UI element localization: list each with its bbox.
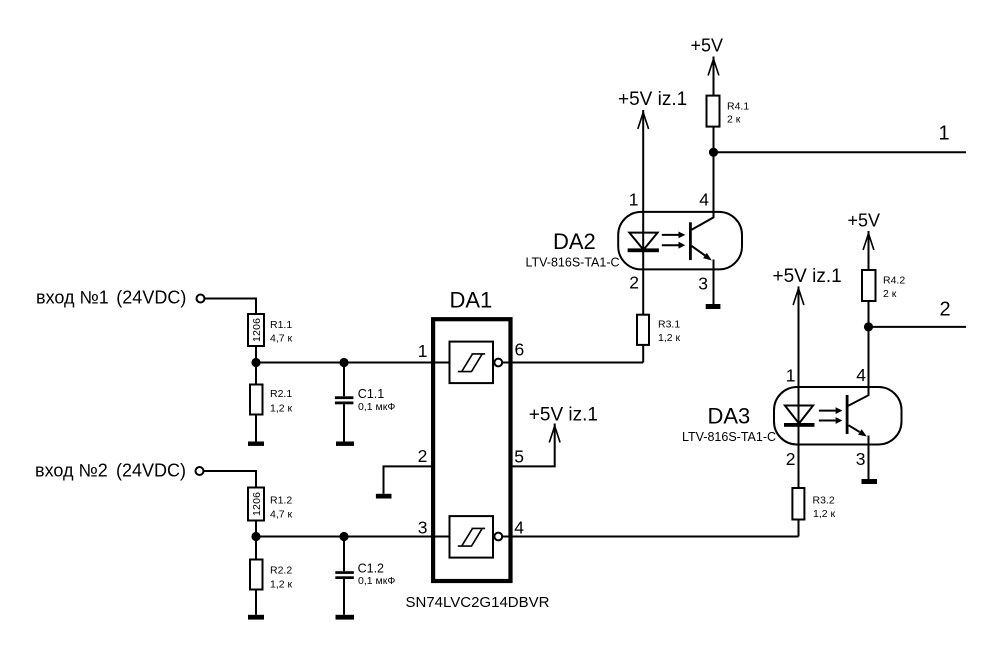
light arrow upper DA3 bbox=[819, 407, 843, 414]
svg-text:+5V iz.1: +5V iz.1 bbox=[618, 89, 687, 110]
ground pin2 DA1 bbox=[376, 494, 392, 499]
wire DA2 pin3 emitter to ground bbox=[713, 260, 715, 305]
svg-text:6: 6 bbox=[515, 340, 525, 360]
svg-text:R1.2: R1.2 bbox=[270, 495, 292, 507]
ground C1.2 bbox=[336, 615, 355, 620]
label R4.2 bbox=[883, 275, 905, 301]
wire +5V iz.1 to DA3 pin1 LED to R3.2 bbox=[798, 287, 800, 489]
svg-text:+5V iz.1: +5V iz.1 bbox=[773, 266, 842, 287]
ground DA3 pin3 bbox=[862, 479, 878, 484]
svg-text:2: 2 bbox=[786, 449, 796, 469]
schmitt trigger 2 hysteresis symbol bbox=[458, 528, 485, 546]
transistor base bar DA2 bbox=[689, 222, 692, 260]
label C1.2 bbox=[358, 561, 396, 587]
node junction C1.1 bbox=[339, 358, 348, 367]
svg-text:4,7 к: 4,7 к bbox=[270, 509, 293, 521]
resistor R2.2 bbox=[250, 560, 263, 590]
wire C1.1 bottom bbox=[343, 404, 345, 441]
label R4.1 bbox=[727, 101, 749, 126]
svg-text:+5V: +5V bbox=[691, 36, 724, 56]
svg-text:3: 3 bbox=[698, 274, 708, 294]
resistor R3.1 bbox=[637, 315, 649, 345]
label R1.2 bbox=[270, 495, 293, 521]
wire pin5 to +5V iz.1 bbox=[510, 424, 555, 467]
wire +5V to R4.1 bbox=[713, 57, 715, 96]
label input 1 bbox=[36, 288, 186, 308]
optocoupler DA3 body bbox=[774, 387, 902, 445]
IC DA1 body bbox=[433, 319, 510, 581]
svg-text:1: 1 bbox=[786, 366, 796, 386]
svg-text:DA1: DA1 bbox=[450, 288, 493, 313]
wire +5V to R4.2 bbox=[868, 231, 870, 270]
wire DA3 pin3 emitter to ground bbox=[868, 436, 870, 480]
svg-text:C1.2: C1.2 bbox=[358, 561, 384, 575]
light arrow lower DA2 bbox=[662, 242, 686, 249]
svg-text:0,1 мкФ: 0,1 мкФ bbox=[358, 575, 395, 587]
capacitor C1.2 bbox=[335, 571, 354, 579]
LED diode DA3 bbox=[785, 406, 813, 424]
schmitt trigger 1 box bbox=[450, 342, 494, 384]
ground R2.2 bbox=[248, 615, 264, 620]
svg-text:R2.2: R2.2 bbox=[270, 565, 292, 577]
resistor R1.2 bbox=[248, 488, 264, 521]
svg-text:вход №1: вход №1 bbox=[36, 288, 109, 308]
svg-text:1: 1 bbox=[939, 123, 950, 145]
node junction R1.2/R2.2 bbox=[251, 532, 260, 541]
svg-text:R3.1: R3.1 bbox=[658, 319, 680, 331]
power +5V iz.1 DA3 arrow bbox=[793, 289, 804, 306]
schmitt trigger 1 hysteresis symbol bbox=[458, 354, 485, 372]
svg-text:DA2: DA2 bbox=[553, 229, 596, 254]
ground C1.1 bbox=[336, 442, 354, 446]
wire output 2 bbox=[869, 326, 967, 328]
LED cathode bar DA3 bbox=[784, 423, 815, 427]
svg-text:2 к: 2 к bbox=[883, 288, 897, 300]
svg-text:1206: 1206 bbox=[251, 492, 263, 516]
wire node row1 left bbox=[256, 362, 449, 364]
svg-text:4: 4 bbox=[699, 190, 709, 210]
svg-text:R4.1: R4.1 bbox=[727, 101, 749, 113]
transistor base bar DA3 bbox=[846, 395, 849, 434]
transistor emitter DA3 bbox=[849, 425, 867, 436]
svg-text:R2.1: R2.1 bbox=[270, 388, 292, 400]
schmitt trigger 2 output bubble bbox=[494, 533, 502, 541]
terminal input 1 bbox=[197, 295, 205, 303]
svg-text:1: 1 bbox=[418, 341, 428, 361]
wire input1 to R1.1 bbox=[205, 299, 256, 315]
resistor R4.1 bbox=[707, 96, 720, 127]
label R3.2 bbox=[813, 495, 836, 521]
svg-text:1,2 к: 1,2 к bbox=[270, 403, 293, 415]
wire pin6 output row1 bbox=[502, 362, 643, 364]
node junction output1 bbox=[709, 148, 718, 157]
svg-text:+5V iz.1: +5V iz.1 bbox=[529, 405, 598, 426]
light arrow lower DA3 bbox=[819, 417, 843, 424]
node junction output2 bbox=[864, 322, 873, 331]
svg-text:C1.1: C1.1 bbox=[358, 387, 384, 401]
svg-text:DA3: DA3 bbox=[708, 404, 751, 429]
wire pin2 to ground bbox=[384, 466, 432, 493]
resistor R4.2 bbox=[862, 270, 876, 301]
label R2.2 bbox=[270, 565, 293, 591]
node junction R1.1/R2.1 bbox=[251, 358, 260, 367]
label R1.1 bbox=[270, 319, 293, 345]
svg-text:1,2 к: 1,2 к bbox=[270, 579, 293, 591]
resistor R1.1 bbox=[248, 314, 264, 346]
svg-text:2 к: 2 к bbox=[727, 114, 741, 126]
wire R3.1 to row1 bbox=[642, 345, 644, 363]
svg-text:LTV-816S-TA1-C: LTV-816S-TA1-C bbox=[526, 255, 620, 269]
transistor emitter DA2 bbox=[692, 246, 712, 261]
svg-text:2: 2 bbox=[940, 299, 951, 321]
wire +5V iz.1 to DA2 pin1 LED bbox=[642, 110, 644, 270]
svg-text:LTV-816S-TA1-C: LTV-816S-TA1-C bbox=[682, 430, 776, 444]
ground R2.1 bbox=[248, 442, 264, 446]
terminal input 2 bbox=[196, 467, 204, 475]
svg-text:4,7 к: 4,7 к bbox=[270, 333, 293, 345]
wire C1.2 bottom bbox=[343, 579, 345, 615]
svg-text:3: 3 bbox=[418, 518, 428, 538]
svg-text:(24VDC): (24VDC) bbox=[116, 461, 186, 481]
svg-text:1: 1 bbox=[629, 190, 639, 210]
LED diode DA2 bbox=[629, 233, 657, 250]
svg-text:R4.2: R4.2 bbox=[883, 275, 905, 287]
wire R3.2 to row3 bbox=[798, 520, 800, 537]
svg-text:R3.2: R3.2 bbox=[813, 495, 835, 507]
label C1.1 bbox=[358, 387, 396, 413]
optocoupler DA2 body bbox=[618, 212, 742, 270]
svg-text:SN74LVC2G14DBVR: SN74LVC2G14DBVR bbox=[406, 594, 550, 611]
label R3.1 bbox=[658, 319, 681, 345]
wire C1.2 top bbox=[343, 537, 345, 572]
svg-text:2: 2 bbox=[629, 273, 639, 293]
wire R4.2 to DA3 pin4 collector bbox=[848, 301, 868, 406]
wire R1.1 to R2.1 to ground bbox=[255, 346, 257, 442]
LED cathode bar DA2 bbox=[628, 248, 659, 252]
wire output 1 bbox=[714, 151, 967, 153]
svg-text:1,2 к: 1,2 к bbox=[813, 508, 836, 520]
svg-text:R1.1: R1.1 bbox=[270, 319, 292, 331]
wire R4.1 to DA2 pin4 collector bbox=[692, 127, 714, 230]
wire input2 to R1.2 bbox=[204, 471, 256, 488]
power +5V iz.1 pin5 arrow bbox=[549, 426, 560, 443]
capacitor C1.1 bbox=[335, 396, 354, 404]
label input 2 bbox=[35, 461, 186, 481]
wire R1.2 to R2.2 to ground bbox=[255, 521, 257, 615]
svg-text:4: 4 bbox=[514, 518, 524, 538]
wire DA2 pin2 to R3.1 bbox=[642, 270, 644, 314]
svg-text:5: 5 bbox=[514, 447, 524, 467]
wire node row3 left bbox=[256, 536, 449, 538]
ground DA2 pin3 bbox=[706, 304, 721, 309]
power +5V R4.2 arrow bbox=[863, 234, 874, 251]
wire DA3 pin2 R3.2 label bbox=[792, 488, 804, 520]
svg-text:3: 3 bbox=[856, 449, 866, 469]
light arrow upper DA2 bbox=[662, 232, 686, 239]
label R2.1 bbox=[270, 388, 293, 415]
node junction C1.2 bbox=[339, 532, 348, 541]
wire C1.1 top bbox=[343, 363, 345, 397]
svg-text:1,2 к: 1,2 к bbox=[658, 332, 681, 344]
resistor R2.1 bbox=[250, 385, 263, 415]
wire pin4 output row3 bbox=[502, 536, 798, 538]
svg-text:вход №2: вход №2 bbox=[35, 461, 108, 481]
svg-text:4: 4 bbox=[856, 365, 866, 385]
svg-text:(24VDC): (24VDC) bbox=[116, 288, 186, 308]
power +5V R4.1 arrow bbox=[708, 59, 719, 76]
svg-text:1206: 1206 bbox=[251, 318, 263, 342]
svg-text:+5V: +5V bbox=[848, 211, 881, 231]
power +5V iz.1 DA2 arrow bbox=[638, 113, 649, 130]
svg-text:0,1 мкФ: 0,1 мкФ bbox=[358, 401, 395, 413]
schmitt trigger 2 box bbox=[450, 516, 494, 558]
schmitt trigger 1 output bubble bbox=[494, 359, 502, 367]
svg-text:2: 2 bbox=[418, 446, 428, 466]
